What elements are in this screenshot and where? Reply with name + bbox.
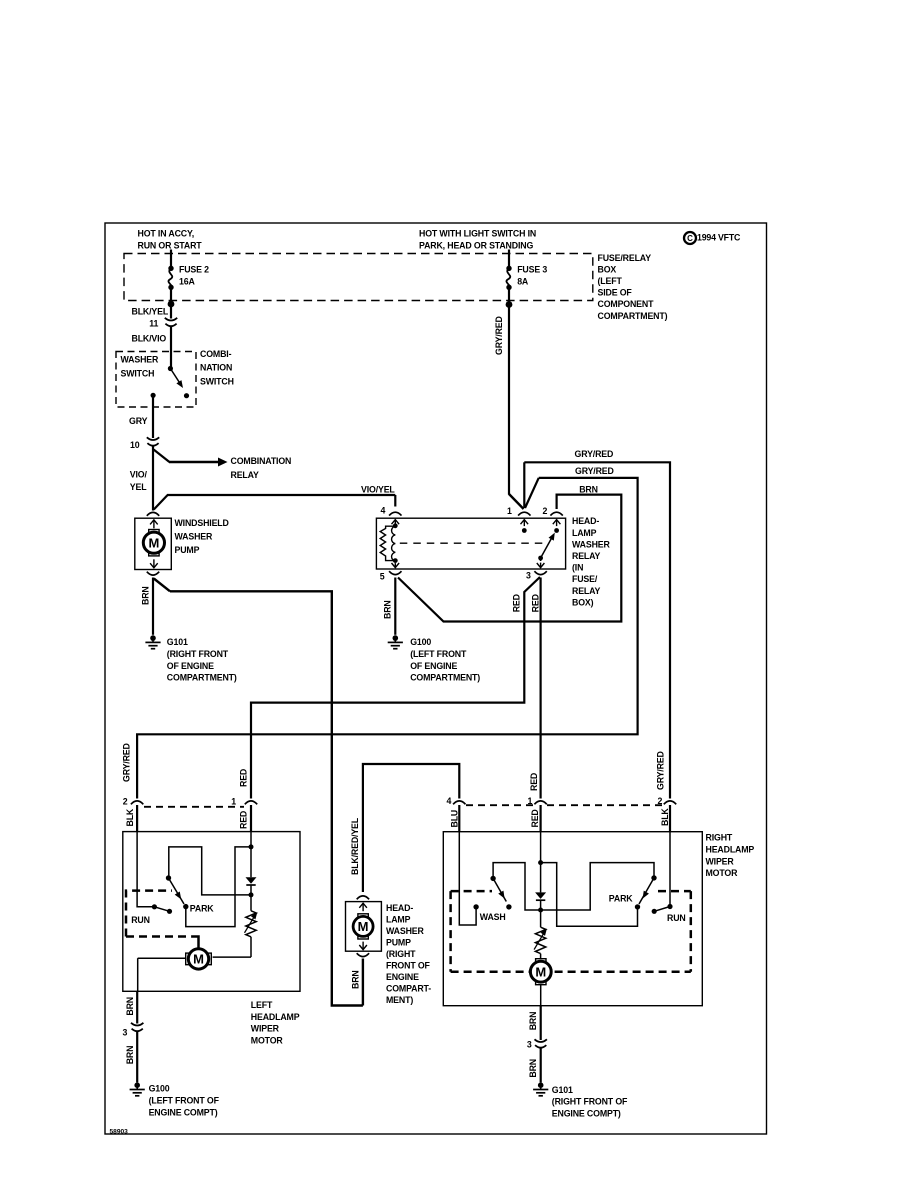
svg-text:4: 4 (381, 506, 386, 516)
svg-text:NATION: NATION (200, 363, 232, 373)
wire label RED (right pin 1 upper) (529, 773, 539, 791)
svg-text:(RIGHT: (RIGHT (386, 949, 416, 959)
svg-text:HEADLAMP: HEADLAMP (251, 1012, 300, 1022)
relay coil (380, 520, 399, 568)
svg-text:M: M (193, 952, 204, 967)
copyright 1994 VFTC (684, 232, 741, 244)
svg-text:(LEFT FRONT OF: (LEFT FRONT OF (149, 1095, 220, 1105)
wire label BLK (left motor) (125, 808, 135, 826)
right motor staircase wash-to-park (493, 863, 654, 910)
wire label BRN (loop) (579, 485, 598, 495)
svg-text:G100: G100 (410, 637, 431, 647)
left motor pin 2 connector (123, 797, 144, 807)
label WINDSHIELD WASHER PUMP (175, 518, 229, 555)
label RIGHT HEADLAMP WIPER MOTOR (706, 833, 755, 879)
svg-text:RED: RED (530, 809, 540, 827)
svg-text:WIPER: WIPER (706, 856, 735, 866)
svg-text:8A: 8A (517, 277, 529, 287)
left motor motor M (186, 949, 212, 969)
right motor WASH switch blade (490, 876, 511, 910)
svg-text:BLK/RED/YEL: BLK/RED/YEL (350, 817, 360, 875)
svg-text:BRN: BRN (579, 485, 598, 495)
svg-text:MOTOR: MOTOR (706, 868, 739, 878)
svg-text:3: 3 (527, 1040, 532, 1050)
svg-text:1: 1 (231, 797, 236, 807)
relay pin 2 internal (553, 520, 561, 533)
fuse F3 (FUSE 3 8A) (506, 250, 548, 308)
label G101 (RIGHT FRONT OF ENGINE COMPARTMENT) (167, 637, 237, 682)
svg-text:58903: 58903 (110, 1128, 129, 1135)
right motor BRN exit (528, 984, 541, 1040)
label G100 (LEFT FRONT OF ENGINE COMPARTMENT) (410, 637, 480, 682)
connector 10 (130, 437, 159, 450)
right motor resistor R2 (534, 910, 547, 961)
headlamp washer pump arrows (359, 903, 367, 949)
svg-text:YEL: YEL (130, 482, 147, 492)
relay pin 4 connector (381, 506, 402, 516)
svg-text:BLK: BLK (125, 808, 135, 826)
wire label GRY/RED 1 (575, 449, 614, 459)
svg-text:BLK/YEL: BLK/YEL (132, 307, 169, 317)
label HEADLAMP WASHER PUMP (RIGHT FRONT OF ENGINE COMPARTMENT) (386, 903, 431, 1005)
svg-text:WASHER: WASHER (572, 539, 611, 549)
right motor pin 1 connector (528, 796, 547, 806)
svg-text:COMBINATION: COMBINATION (231, 456, 292, 466)
wire GRY/RED loop 2 (137, 478, 637, 799)
wire label GRY/RED (left motor) (121, 743, 131, 782)
relay pin 3 connector (526, 571, 547, 581)
right motor motor M (530, 959, 551, 985)
svg-text:WINDSHIELD: WINDSHIELD (175, 518, 229, 528)
svg-text:HEAD-: HEAD- (572, 516, 599, 526)
svg-text:FUSE 3: FUSE 3 (517, 265, 547, 275)
svg-text:RED: RED (239, 811, 249, 829)
headlamp washer pump connector bottom (357, 953, 369, 956)
svg-text:(LEFT FRONT: (LEFT FRONT (410, 649, 467, 659)
svg-text:GRY/RED: GRY/RED (121, 743, 131, 782)
left motor staircase red-to-park (186, 844, 254, 926)
label HOT WITH LIGHT SWITCH IN PARK HEAD OR STANDING (419, 229, 536, 251)
right motor RED feed (538, 805, 543, 865)
wire GRY/RED (fuse 3 to relay pin 1) (494, 305, 524, 510)
wire BRN link (washer pumps common) (154, 579, 363, 1006)
svg-text:FUSE/: FUSE/ (572, 574, 598, 584)
svg-text:RED: RED (239, 769, 249, 787)
svg-text:VIO/: VIO/ (130, 470, 148, 480)
svg-text:WASHER: WASHER (386, 926, 425, 936)
right motor RUN switch (652, 904, 673, 914)
svg-text:M: M (358, 919, 369, 934)
wire label VIO/YEL (left) (130, 470, 148, 493)
relay pin 1 internal (521, 520, 529, 533)
svg-text:RED: RED (512, 594, 522, 612)
wire label BLU (449, 810, 459, 828)
svg-text:G101: G101 (167, 637, 188, 647)
wire label VIO/YEL (361, 485, 395, 495)
washer switch S1 blade (151, 366, 190, 398)
right motor connector line (dashed) (466, 804, 664, 806)
svg-text:RED: RED (529, 773, 539, 791)
svg-text:16A: 16A (179, 277, 195, 287)
svg-text:WASH: WASH (480, 912, 506, 922)
ground G100 (bottom left) (130, 1082, 145, 1095)
left motor connector line (dashed) (144, 806, 244, 808)
wire label RED (left pin 1 upper) (239, 769, 249, 787)
svg-text:HEAD-: HEAD- (386, 903, 413, 913)
svg-text:BRN: BRN (140, 586, 150, 605)
svg-text:PUMP: PUMP (175, 545, 200, 555)
ground G100 (relay) (388, 635, 403, 648)
svg-text:OF ENGINE: OF ENGINE (167, 661, 214, 671)
svg-text:2: 2 (123, 797, 128, 807)
svg-text:WASHER: WASHER (121, 354, 160, 364)
wire label GRY/RED 2 (575, 466, 614, 476)
svg-text:2: 2 (543, 506, 548, 516)
wire BRN loop (relay pin 2 to pin 5) (398, 495, 621, 622)
svg-text:1: 1 (507, 506, 512, 516)
svg-text:4: 4 (447, 796, 452, 806)
svg-text:M: M (148, 535, 159, 550)
label HEADLAMP WASHER RELAY (IN FUSE/RELAY BOX) (572, 516, 611, 607)
svg-text:COMPARTMENT): COMPARTMENT) (598, 311, 668, 321)
svg-text:HOT IN ACCY,: HOT IN ACCY, (138, 229, 195, 239)
diagram frame border (105, 223, 767, 1134)
windshield washer pump arrows (150, 520, 158, 568)
svg-text:(RIGHT FRONT OF: (RIGHT FRONT OF (552, 1097, 628, 1107)
label FUSE/RELAY BOX (LEFT SIDE OF COMPONENT COMPARTMENT) (598, 253, 668, 321)
wire GRY (129, 395, 153, 438)
svg-text:SWITCH: SWITCH (200, 376, 234, 386)
svg-text:RUN: RUN (131, 915, 150, 925)
svg-text:11: 11 (149, 319, 158, 329)
left motor BRN exit (125, 991, 137, 1023)
wire RED (pin 3 to left motor) (251, 577, 540, 799)
svg-text:FRONT OF: FRONT OF (386, 960, 431, 970)
svg-text:LEFT: LEFT (251, 1000, 273, 1010)
svg-text:RED: RED (531, 594, 541, 612)
svg-text:BOX: BOX (598, 264, 617, 274)
ground G101 (left) (145, 635, 160, 648)
svg-text:BRN: BRN (382, 600, 392, 619)
label LEFT HEADLAMP WIPER MOTOR (251, 1000, 300, 1045)
relay pin 5 connector (380, 571, 402, 581)
svg-text:RELAY: RELAY (231, 470, 260, 480)
svg-text:ENGINE COMPT): ENGINE COMPT) (149, 1107, 218, 1117)
wire BRN (windshield pump to G101) (140, 578, 153, 635)
svg-text:FUSE/RELAY: FUSE/RELAY (598, 253, 652, 263)
svg-text:FUSE 2: FUSE 2 (179, 265, 209, 275)
svg-text:PARK: PARK (190, 904, 214, 914)
svg-text:MOTOR: MOTOR (251, 1035, 284, 1045)
right motor staircase red-to-park (541, 863, 638, 927)
svg-text:WASHER: WASHER (175, 531, 214, 541)
left wiper motor box (123, 832, 300, 992)
label PARK (left) (190, 904, 214, 914)
wire to combination relay (153, 447, 228, 511)
svg-text:BOX): BOX) (572, 597, 594, 607)
svg-text:GRY/RED: GRY/RED (575, 449, 614, 459)
left motor RED feed (250, 805, 252, 847)
svg-text:BLK/VIO: BLK/VIO (132, 333, 167, 343)
connector 3 (left) (123, 1023, 144, 1038)
svg-text:BLK: BLK (660, 808, 670, 826)
label WASHER SWITCH (121, 354, 160, 378)
wire BLK/RED/YEL to pump (350, 764, 459, 892)
wire BRN (pump bottom) (350, 959, 363, 1006)
left motor wires to M (138, 957, 251, 991)
svg-text:PARK, HEAD OR STANDING: PARK, HEAD OR STANDING (419, 241, 533, 251)
svg-text:COMPARTMENT): COMPARTMENT) (410, 673, 480, 683)
svg-text:(LEFT: (LEFT (598, 276, 623, 286)
svg-text:BRN: BRN (350, 970, 360, 989)
right wiper motor box (443, 832, 702, 1006)
label RUN (right) (667, 913, 686, 923)
left motor inner dashed box (126, 891, 191, 937)
label HOT IN ACCY RUN OR START (138, 229, 203, 251)
wire BLK/VIO (132, 327, 172, 369)
left motor PARK switch (166, 875, 189, 909)
right motor inner dashed box (451, 891, 691, 972)
svg-text:ENGINE COMPT): ENGINE COMPT) (552, 1108, 621, 1118)
svg-text:LAMP: LAMP (572, 528, 597, 538)
svg-text:3: 3 (526, 571, 531, 581)
wire BRN (relay pin 5 to G100) (382, 578, 395, 635)
svg-text:COMPART-: COMPART- (386, 983, 431, 993)
windshield washer pump motor M (143, 530, 164, 556)
relay switch blade (537, 533, 555, 568)
svg-text:RELAY: RELAY (572, 551, 601, 561)
svg-text:BRN: BRN (125, 997, 135, 1016)
wire BRN to G100 (left) (125, 1032, 137, 1082)
windshield washer pump connector (147, 512, 159, 515)
left motor diode D1 (246, 847, 257, 898)
svg-text:PARK: PARK (609, 893, 633, 903)
fuse/relay box (dashed) (124, 254, 593, 301)
left motor pin 1 connector (231, 797, 257, 807)
right motor BLU feed (459, 805, 479, 925)
wire BLK/YEL (132, 304, 172, 319)
label WASH (480, 912, 506, 922)
svg-text:SIDE OF: SIDE OF (598, 288, 633, 298)
label PARK (right) (609, 893, 633, 903)
wire VIO/YEL to relay pin 4 (154, 495, 395, 510)
svg-text:GRY/RED: GRY/RED (655, 751, 665, 790)
svg-text:RUN OR START: RUN OR START (138, 240, 203, 250)
svg-text:10: 10 (130, 440, 140, 450)
headlamp washer pump motor M (353, 914, 373, 939)
relay pin 1 connector (507, 506, 531, 516)
svg-text:COMBI-: COMBI- (200, 349, 232, 359)
svg-text:M: M (535, 964, 546, 979)
svg-text:HOT WITH LIGHT SWITCH IN: HOT WITH LIGHT SWITCH IN (419, 229, 536, 239)
windshield pump bottom connector (147, 572, 159, 575)
svg-text:3: 3 (123, 1028, 128, 1038)
washer switch box (dashed) (116, 352, 196, 408)
svg-text:LAMP: LAMP (386, 915, 411, 925)
label RUN (left) (131, 915, 150, 925)
svg-text:BRN: BRN (125, 1046, 135, 1065)
svg-text:MENT): MENT) (386, 995, 413, 1005)
svg-text:GRY: GRY (129, 416, 148, 426)
svg-text:ENGINE: ENGINE (386, 972, 419, 982)
connector 11 (149, 318, 177, 329)
right motor PARK switch (635, 875, 657, 909)
wire label RED (left pin 1 lower) (239, 811, 249, 829)
svg-text:GRY/RED: GRY/RED (575, 466, 614, 476)
svg-text:WIPER: WIPER (251, 1024, 280, 1034)
svg-text:G100: G100 (149, 1083, 170, 1093)
svg-text:BRN: BRN (528, 1059, 538, 1078)
svg-text:(RIGHT FRONT: (RIGHT FRONT (167, 649, 229, 659)
svg-text:BRN: BRN (528, 1012, 538, 1031)
wire BRN to G101 (right) (528, 1049, 541, 1083)
headlamp washer pump connector top (357, 896, 369, 899)
svg-text:RELAY: RELAY (572, 586, 601, 596)
label G101 (RIGHT FRONT OF ENGINE COMPT) (552, 1085, 628, 1118)
svg-text:COMPARTMENT): COMPARTMENT) (167, 673, 237, 683)
left motor resistor R1 (245, 895, 258, 957)
relay pin 2 connector (543, 506, 563, 516)
wire RED (pin 3 to right motor) (531, 578, 541, 799)
relay mechanical link (dashed) (400, 542, 545, 544)
svg-text:1994 VFTC: 1994 VFTC (697, 232, 741, 242)
right motor diode D2 (535, 863, 546, 913)
sheet number 58903 (110, 1128, 129, 1135)
svg-text:5: 5 (380, 571, 385, 581)
svg-text:SWITCH: SWITCH (121, 368, 155, 378)
wire label BLK (right motor) (660, 808, 670, 826)
right motor GRY/RED feed (669, 805, 671, 907)
fuse F2 (FUSE 2 16A) (168, 250, 210, 308)
left motor staircase park-to-diode (169, 847, 249, 895)
headlamp washer relay box (376, 518, 565, 569)
windshield washer pump box (135, 518, 172, 569)
svg-text:COMPONENT: COMPONENT (598, 299, 655, 309)
label COMBINATION RELAY (231, 456, 292, 480)
svg-text:(IN: (IN (572, 563, 583, 573)
label G100 (LEFT FRONT OF ENGINE COMPT) (149, 1083, 220, 1117)
left motor mech link to motor (191, 937, 198, 949)
wire GRY/RED loop 1 (524, 462, 670, 798)
svg-text:C: C (687, 234, 693, 243)
wire label RED (right pin 1 lower) (530, 809, 540, 827)
right motor pin 4 connector (447, 796, 466, 806)
svg-text:RUN: RUN (667, 913, 686, 923)
svg-text:PUMP: PUMP (386, 938, 411, 948)
left motor RUN switch (152, 904, 172, 914)
svg-text:G101: G101 (552, 1085, 573, 1095)
right motor pin 2 connector (658, 796, 677, 806)
connector 3 (right) (527, 1039, 547, 1049)
headlamp washer pump box (346, 902, 382, 952)
svg-text:BLU: BLU (449, 810, 459, 828)
svg-text:GRY/RED: GRY/RED (494, 316, 504, 355)
svg-text:RIGHT: RIGHT (706, 833, 733, 843)
svg-text:OF ENGINE: OF ENGINE (410, 661, 457, 671)
svg-text:HEADLAMP: HEADLAMP (706, 844, 755, 854)
wire label GRY/RED (right motor) (655, 751, 665, 790)
ground G101 (bottom right) (533, 1082, 548, 1095)
svg-text:VIO/YEL: VIO/YEL (361, 485, 395, 495)
label COMBINATION SWITCH (200, 349, 234, 387)
left motor BLK feed (137, 805, 154, 907)
